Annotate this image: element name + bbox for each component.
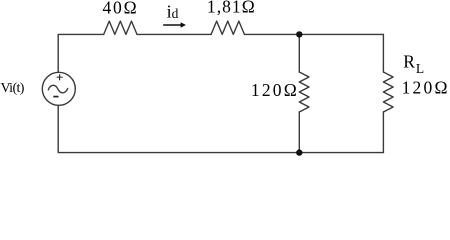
svg-text:120Ω: 120Ω <box>251 80 299 100</box>
svg-text:120Ω: 120Ω <box>402 78 450 98</box>
resistor RL zigzag <box>383 72 393 112</box>
svg-text:Vi(t): Vi(t) <box>1 81 25 96</box>
svg-text:RL: RL <box>403 52 424 76</box>
wire top right segment <box>244 33 383 35</box>
source sine symbol <box>48 85 67 92</box>
wire bottom <box>58 106 383 153</box>
svg-text:1,81Ω: 1,81Ω <box>207 0 256 17</box>
svg-text:40Ω: 40Ω <box>103 0 139 17</box>
node dot top <box>296 31 302 37</box>
resistor R1 40ohm zigzag <box>104 21 137 34</box>
source minus sign <box>53 96 58 98</box>
current arrow id <box>163 22 186 28</box>
wire top middle segment <box>137 33 211 35</box>
source plus sign <box>57 74 63 80</box>
source V1 circle <box>42 72 75 105</box>
svg-text:id: id <box>167 1 179 21</box>
resistor 120ohm middle zigzag <box>299 72 309 112</box>
resistor R2 1,81ohm zigzag <box>211 21 244 34</box>
wire right branch lower <box>382 112 384 153</box>
wire middle branch lower <box>298 112 300 153</box>
wire top-left segment <box>58 34 103 72</box>
wire middle branch upper <box>298 34 300 72</box>
node dot bottom <box>296 149 302 155</box>
wire right branch upper <box>382 34 384 72</box>
